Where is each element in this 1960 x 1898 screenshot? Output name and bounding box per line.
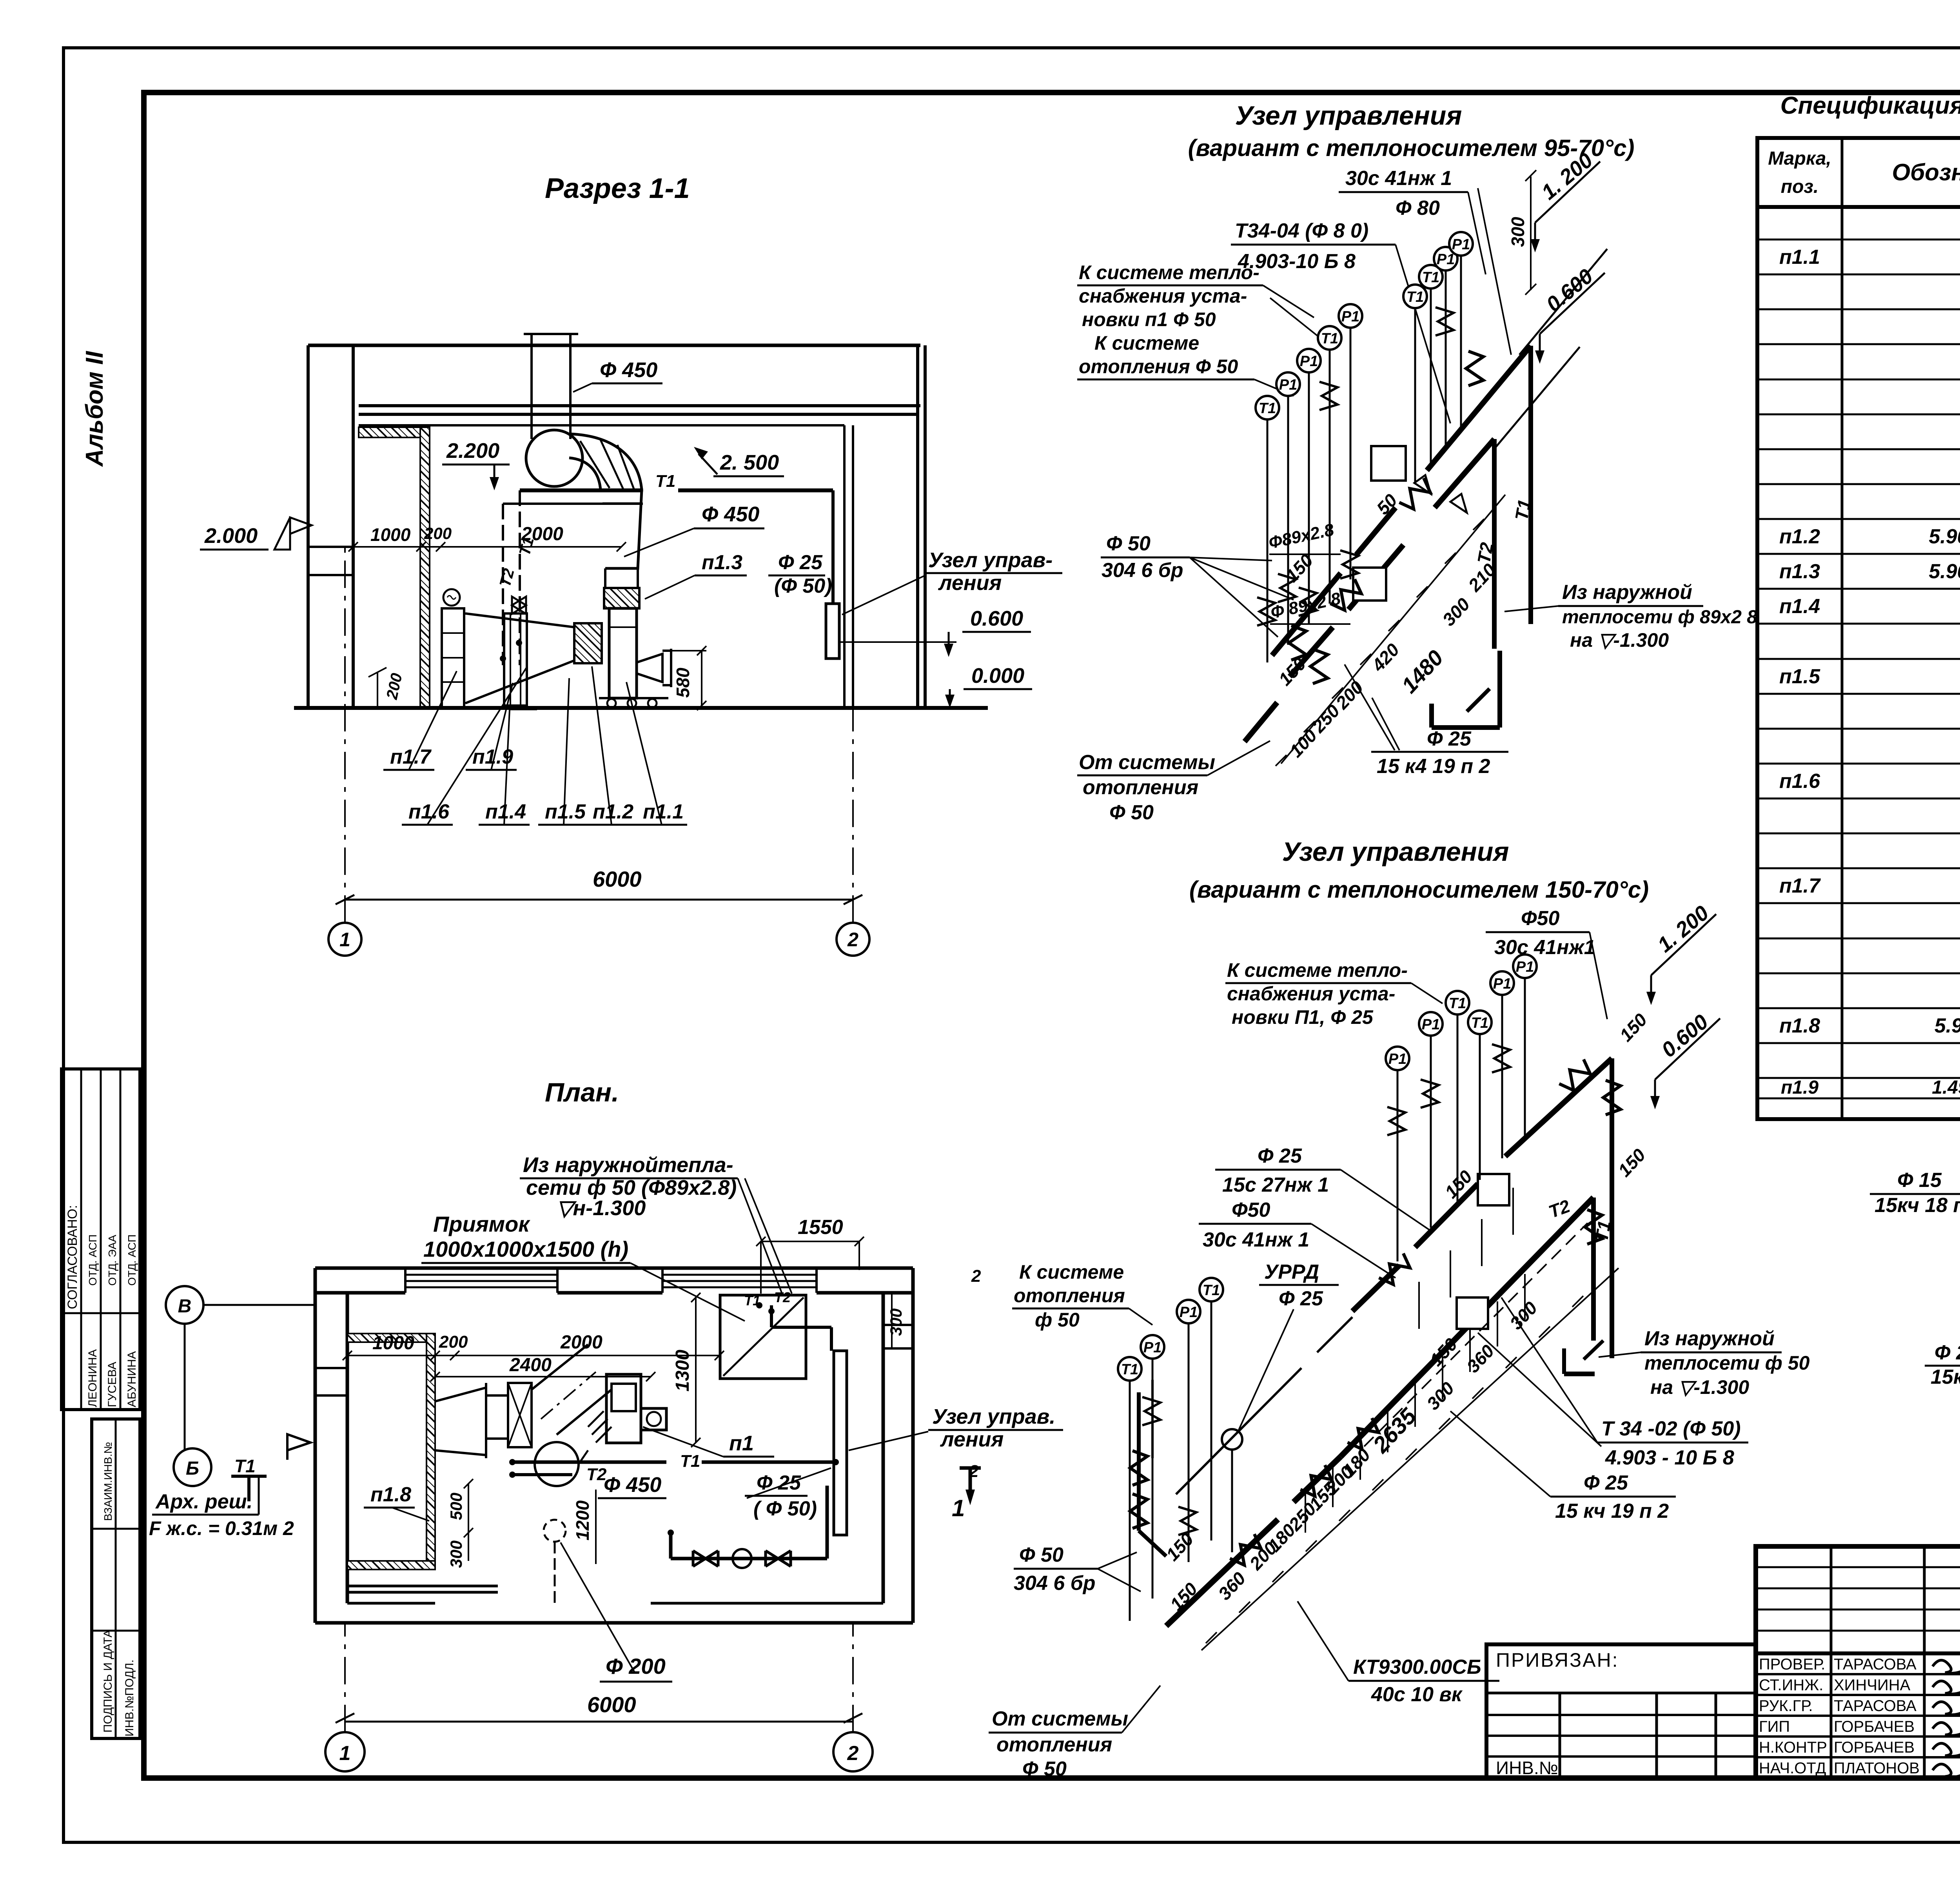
plan grid circle 2 [833, 1623, 873, 1771]
svg-text:п1.1: п1.1 [643, 800, 684, 823]
right column inner [844, 425, 853, 708]
level 0.600 [839, 607, 1031, 657]
svg-text:15кч 18 п 2: 15кч 18 п 2 [1875, 1194, 1960, 1217]
svg-text:ТАРАСОВА: ТАРАСОВА [1834, 1697, 1916, 1715]
label uzel upravlenia section [842, 548, 1062, 615]
svg-text:Узел управ.: Узел управ. [932, 1405, 1055, 1428]
axo2 label URRD [1239, 1261, 1339, 1430]
svg-text:п1.2: п1.2 [1779, 525, 1820, 548]
axo1 dim 300 vertical [1508, 170, 1536, 295]
svg-text:Марка,: Марка, [1768, 148, 1831, 169]
AHU filter box [486, 1383, 532, 1447]
axo1 T1 riser right [1511, 346, 1535, 624]
svg-text:Ф 50: Ф 50 [1022, 1758, 1067, 1780]
flex insert P1.3 [604, 588, 639, 608]
axo1 label k sisteme otopl [1077, 332, 1294, 396]
svg-text:ГОРБАЧЕВ: ГОРБАЧЕВ [1834, 1739, 1915, 1756]
svg-text:К системе: К системе [1019, 1261, 1124, 1283]
riser with gauge Т1 [1419, 265, 1443, 466]
intake chamber hatched walls [347, 1334, 435, 1570]
axo2 valves on runs [1377, 1252, 1414, 1288]
control unit rect [826, 604, 839, 659]
svg-text:2: 2 [847, 1742, 859, 1765]
svg-text:теплосети ф 50: теплосети ф 50 [1644, 1352, 1810, 1374]
label F25 F50 [768, 551, 832, 597]
svg-text:ХИНЧИНА: ХИНЧИНА [1834, 1677, 1911, 1694]
axo2 left assembly [1130, 1380, 1166, 1556]
svg-text:снабжения уста-: снабжения уста- [1227, 983, 1395, 1005]
riser with gauge Р1 [1297, 349, 1321, 624]
svg-text:Р1: Р1 [1388, 1051, 1406, 1067]
riser with gauge Т1 [1403, 285, 1427, 484]
svg-text:300: 300 [887, 1308, 905, 1336]
svg-text:580: 580 [673, 668, 693, 698]
axo1 label T34-04 [1231, 220, 1450, 423]
svg-text:1200: 1200 [572, 1500, 593, 1541]
riser with gauge Т1 [1200, 1278, 1223, 1541]
svg-text:30с 41нж1: 30с 41нж1 [1494, 936, 1595, 959]
svg-text:РУК.ГР.: РУК.ГР. [1759, 1697, 1813, 1715]
svg-text:Р1: Р1 [1300, 353, 1318, 370]
svg-text:Узел управления: Узел управления [1282, 837, 1509, 867]
axo1 flow arrows [1414, 475, 1431, 494]
level mark 2.000 left [200, 517, 312, 550]
svg-text:(вариант с теплоносителем 95-7: (вариант с теплоносителем 95-70°с) [1188, 135, 1635, 161]
svg-text:ВЗАИМ.ИНВ.№: ВЗАИМ.ИНВ.№ [102, 1442, 114, 1521]
dim line 1000/200/2000 [348, 524, 626, 552]
grid line 2 [837, 425, 869, 956]
svg-text:2: 2 [969, 1462, 979, 1481]
svg-text:0.000: 0.000 [971, 664, 1024, 688]
svg-text:1000х1000х1500 (h): 1000х1000х1500 (h) [423, 1237, 628, 1261]
dim 1550 [756, 1216, 864, 1294]
axo1 label F25 15kch [1345, 664, 1508, 778]
svg-text:Р1: Р1 [1452, 236, 1470, 253]
axo2 label ot sistemy [989, 1686, 1160, 1780]
svg-text:300: 300 [1508, 217, 1528, 247]
svg-text:новки П1, Ф 25: новки П1, Ф 25 [1232, 1006, 1374, 1028]
svg-text:СТ.ИНЖ.: СТ.ИНЖ. [1759, 1677, 1823, 1694]
svg-text:40с 10 вк: 40с 10 вк [1371, 1683, 1463, 1706]
label P1 [643, 1427, 774, 1457]
svg-text:Обозначение: Обозначение [1892, 159, 1960, 185]
svg-text:п1.8: п1.8 [1779, 1014, 1820, 1037]
axo2 label F50 30s41 [1199, 1199, 1396, 1278]
specification table header text [1768, 148, 1960, 197]
axo1 T2 riser right [1474, 439, 1497, 649]
svg-text:Из наружной: Из наружной [1562, 581, 1692, 604]
svg-text:2.000: 2.000 [204, 524, 258, 548]
svg-text:(вариант с теплоносителем 150-: (вариант с теплоносителем 150-70°с) [1189, 876, 1649, 903]
svg-text:Ф 25: Ф 25 [757, 1472, 801, 1494]
valve motor [443, 589, 460, 606]
svg-text:Арх. реш.: Арх. реш. [155, 1490, 252, 1513]
axo1 elevation 0.600 [1535, 264, 1605, 364]
svg-text:Альбом II: Альбом II [81, 350, 108, 467]
axo2 URRD circle [1176, 1317, 1352, 1552]
AHU plan: intake cone [435, 1383, 486, 1458]
svg-text:15кч 19п2: 15кч 19п2 [1931, 1366, 1960, 1388]
svg-text:ОТД. АСП: ОТД. АСП [87, 1234, 99, 1286]
svg-text:5.904-38: 5.904-38 [1929, 560, 1960, 583]
svg-text:15с 27нж 1: 15с 27нж 1 [1222, 1174, 1329, 1196]
svg-text:2: 2 [847, 929, 858, 951]
unit base with rollers [599, 698, 668, 708]
section mark 1 top [952, 1468, 981, 1521]
svg-text:ГИП: ГИП [1759, 1718, 1790, 1735]
pit priyamok [720, 1295, 806, 1379]
svg-text:п1.6: п1.6 [1779, 770, 1820, 793]
svg-text:30с 41нж 1: 30с 41нж 1 [1345, 167, 1452, 190]
axo2 stubs between runs [1419, 1188, 1513, 1329]
control unit riser plan [744, 1289, 847, 1535]
svg-text:1300: 1300 [672, 1350, 693, 1392]
svg-text:Т1: Т1 [1471, 1015, 1488, 1031]
svg-text:1000: 1000 [372, 1333, 414, 1354]
svg-text:1000: 1000 [370, 524, 411, 545]
insulation strip on wall top [359, 427, 423, 437]
svg-text:на ▽-1.300: на ▽-1.300 [1570, 629, 1669, 651]
riser with gauge Р1 [1141, 1335, 1164, 1599]
svg-text:АБУНИНА: АБУНИНА [125, 1351, 138, 1407]
svg-text:п1.8: п1.8 [370, 1483, 411, 1506]
specification table rows text [1779, 211, 1960, 1119]
dim 6000 plan [336, 1692, 862, 1723]
plan left wall [315, 1268, 347, 1623]
svg-text:Ф 450: Ф 450 [604, 1473, 661, 1497]
axo1 label F50 304 [1101, 532, 1294, 637]
svg-text:Р1: Р1 [1341, 308, 1359, 325]
dim 1300 [672, 1293, 701, 1447]
svg-text:200: 200 [439, 1332, 468, 1352]
svg-text:ГУСЕВА: ГУСЕВА [106, 1362, 119, 1407]
svg-text:отопления: отопления [1014, 1285, 1125, 1306]
svg-text:п1.1: п1.1 [1779, 246, 1820, 269]
svg-text:6000: 6000 [593, 867, 642, 891]
axo2 label F50 30s41 under title [1486, 907, 1607, 1019]
label F15 top-left [1870, 1169, 1960, 1217]
pipe T1 horizontal [520, 472, 833, 491]
fan elbow [526, 430, 642, 490]
svg-text:сети ф 50 (Ф89х2.8): сети ф 50 (Ф89х2.8) [526, 1176, 737, 1199]
axo2 label F25 15kch [1450, 1411, 1676, 1522]
svg-text:2: 2 [971, 1267, 981, 1286]
label F25 plan [745, 1468, 831, 1520]
svg-text:ПЛАТОНОВ: ПЛАТОНОВ [1834, 1760, 1920, 1777]
riser with gauge Р1 [1276, 372, 1300, 645]
axo1 elevation 1.200 [1530, 149, 1600, 252]
window lines top [405, 1268, 817, 1293]
dim 1200 [572, 1490, 596, 1564]
svg-text:Ф 50: Ф 50 [1106, 532, 1151, 555]
ceiling top line [308, 344, 920, 347]
axo1 T2 diagonal [1245, 439, 1494, 742]
svg-text:ГОРБАЧЕВ: ГОРБАЧЕВ [1834, 1718, 1915, 1735]
heater KSK P1.4 [504, 613, 527, 708]
svg-text:▽н-1.300: ▽н-1.300 [557, 1196, 646, 1220]
svg-text:п1: п1 [729, 1432, 754, 1455]
svg-text:Р1: Р1 [1279, 377, 1297, 393]
svg-text:300: 300 [447, 1541, 465, 1568]
svg-text:Р1: Р1 [1143, 1339, 1161, 1356]
dim 6000 section [336, 867, 862, 904]
svg-text:0.600: 0.600 [970, 607, 1023, 630]
svg-text:2.200: 2.200 [446, 439, 499, 463]
leader labels P1.6 P1.4 P1.5 P1.2 P1.1 [402, 666, 687, 825]
svg-text:ления: ления [938, 571, 1002, 595]
svg-text:5.904-4: 5.904-4 [1935, 1014, 1960, 1037]
dim 300 right [887, 1294, 905, 1348]
svg-text:4.903 - 10 Б 8: 4.903 - 10 Б 8 [1605, 1446, 1734, 1469]
svg-text:Р1: Р1 [1493, 976, 1511, 992]
svg-text:Т2: Т2 [774, 1289, 791, 1305]
flex hatch plan [588, 1411, 612, 1443]
svg-text:Т1: Т1 [680, 1452, 700, 1471]
svg-text:Ф 15: Ф 15 [1897, 1169, 1942, 1192]
svg-text:ления: ления [940, 1428, 1004, 1451]
svg-text:п1.3: п1.3 [1779, 560, 1820, 583]
svg-text:Т1: Т1 [1321, 330, 1338, 347]
svg-text:F ж.с. = 0.31м 2: F ж.с. = 0.31м 2 [149, 1517, 294, 1539]
svg-text:теплосети ф 89х2 8: теплосети ф 89х2 8 [1562, 607, 1757, 628]
svg-text:1550: 1550 [798, 1216, 843, 1239]
privyazan box [1486, 1644, 1756, 1778]
svg-text:Ф 25: Ф 25 [778, 551, 823, 574]
svg-text:План.: План. [545, 1078, 619, 1107]
axo2 label k sisteme teplo [1225, 959, 1443, 1028]
axo1 dim texts [1274, 490, 1500, 761]
plan bottom wall [315, 1603, 913, 1623]
svg-text:Ф50: Ф50 [1232, 1199, 1270, 1221]
svg-text:1: 1 [952, 1495, 965, 1521]
pipe T2 plan stub [509, 1465, 607, 1484]
svg-text:Ф 25: Ф 25 [1258, 1145, 1302, 1167]
svg-text:5.904-38: 5.904-38 [1929, 525, 1960, 548]
axo1 dim line [1276, 495, 1505, 766]
svg-text:ОТД. ЭАА: ОТД. ЭАА [106, 1235, 118, 1286]
lower pipe with valves [668, 1486, 827, 1568]
svg-text:ЛЕОНИНА: ЛЕОНИНА [86, 1349, 99, 1407]
axo2 label T34-02 [1478, 1297, 1748, 1469]
axo1 label iz naruzhnoy [1504, 581, 1757, 651]
svg-text:От системы: От системы [1079, 751, 1215, 774]
svg-text:Узел управ-: Узел управ- [928, 548, 1053, 572]
svg-text:К системе тепло-: К системе тепло- [1227, 959, 1408, 981]
svg-text:Р1: Р1 [1180, 1304, 1198, 1321]
svg-text:15 к4 19 п 2: 15 к4 19 п 2 [1377, 755, 1490, 778]
svg-text:п1.9: п1.9 [1781, 1077, 1818, 1098]
svg-text:СОГЛАСОВАНО:: СОГЛАСОВАНО: [65, 1205, 80, 1309]
T1 flag mark plan [231, 1456, 267, 1501]
svg-text:отопления Ф 50: отопления Ф 50 [1079, 356, 1238, 377]
axo1 squares on runs [1371, 446, 1406, 481]
flag mark left plan [287, 1434, 310, 1460]
svg-text:Ф 25 (Ф50): Ф 25 (Ф50) [1935, 1341, 1960, 1364]
svg-text:Ф 25: Ф 25 [1584, 1472, 1628, 1494]
label P1.3 [645, 551, 747, 599]
riser with gauge Т1 [1446, 991, 1469, 1201]
svg-text:Ф 80: Ф 80 [1396, 197, 1440, 220]
label F450 plan [598, 1473, 666, 1498]
flexible insert P1.2 [574, 623, 602, 663]
riser with gauge Р1 [1449, 232, 1473, 431]
label uzel plan [849, 1405, 1063, 1451]
ceiling slab lines [359, 406, 920, 425]
svg-text:Ф50: Ф50 [1521, 907, 1560, 930]
axo2 elevation 0.600 [1650, 1010, 1720, 1109]
axo2 label F50 304 [1014, 1544, 1141, 1595]
svg-text:отопления: отопления [996, 1733, 1112, 1756]
svg-text:Н.КОНТР: Н.КОНТР [1759, 1739, 1827, 1756]
axo2 T1 right vertical [1591, 1058, 1615, 1358]
riser with gauge Р1 [1386, 1047, 1409, 1261]
plan outer walls top band [315, 1268, 913, 1293]
title block frame [1756, 1546, 1960, 1778]
svg-text:15 кч 19 п 2: 15 кч 19 п 2 [1555, 1500, 1669, 1522]
label F200 [561, 1542, 672, 1682]
svg-text:п1.2: п1.2 [593, 800, 633, 823]
label F450 top [573, 358, 662, 392]
dims 1000 200 2000 plan [343, 1332, 724, 1381]
svg-text:отопления: отопления [1083, 776, 1198, 799]
svg-text:1: 1 [339, 1742, 351, 1765]
svg-text:Т1: Т1 [1203, 1282, 1220, 1299]
svg-text:500: 500 [447, 1493, 465, 1520]
axo1 bottom hook [1432, 651, 1500, 728]
svg-text:п1.3: п1.3 [702, 551, 742, 574]
axo2 T1 upper run [1352, 1058, 1612, 1311]
axo2 elevation 1.200 [1646, 901, 1716, 1005]
svg-text:Т1: Т1 [234, 1456, 256, 1476]
svg-text:УРРД: УРРД [1264, 1261, 1319, 1283]
svg-text:Т1: Т1 [1422, 269, 1439, 286]
vertical duct F450 [524, 334, 578, 439]
discharge taper [601, 490, 642, 588]
label F450 mid [624, 503, 764, 557]
level mark 2.200 [442, 439, 510, 490]
axo1 extra valves cluster [1289, 626, 1306, 660]
pipe T2 riser dashed [496, 504, 643, 665]
dim 200 left [368, 668, 406, 708]
svg-text:Р1: Р1 [1516, 959, 1534, 975]
chamber shelf line [347, 1586, 498, 1592]
left approval table [62, 1069, 140, 1410]
axo2 valves right verticals [1557, 1058, 1594, 1094]
motor P1.1 [637, 649, 671, 687]
grid circle V [166, 1286, 315, 1450]
svg-text:6000: 6000 [587, 1692, 636, 1717]
svg-text:К системе тепло-: К системе тепло- [1079, 261, 1259, 283]
fan section P1.1 [609, 608, 637, 698]
label P1.8 [364, 1483, 429, 1521]
level mark 2.500 [694, 447, 784, 476]
svg-text:Ф 25: Ф 25 [1279, 1287, 1323, 1310]
axo1 valves on runs [1328, 577, 1365, 614]
svg-text:Т1: Т1 [655, 472, 675, 491]
svg-text:Ф 50: Ф 50 [1019, 1544, 1063, 1566]
svg-text:КТ9300.00СБ: КТ9300.00СБ [1353, 1656, 1481, 1678]
svg-text:ПРИВЯЗАН:: ПРИВЯЗАН: [1496, 1649, 1619, 1671]
riser with gauge Р1 [1513, 954, 1537, 1137]
svg-text:2000: 2000 [521, 524, 563, 544]
pipe connection dots [516, 640, 522, 646]
motor box plan [606, 1374, 666, 1443]
riser with gauge Р1 [1419, 1012, 1443, 1228]
svg-text:Ф 50: Ф 50 [1109, 801, 1154, 824]
svg-text:Разрез 1-1: Разрез 1-1 [545, 173, 690, 204]
svg-text:Р1: Р1 [1422, 1016, 1440, 1033]
svg-text:Из наружнойтепла-: Из наружнойтепла- [523, 1153, 733, 1177]
svg-text:1.494-25: 1.494-25 [1932, 1077, 1960, 1098]
svg-text:Из наружной: Из наружной [1644, 1327, 1775, 1350]
svg-text:Приямок: Приямок [433, 1212, 530, 1236]
svg-text:п1.5: п1.5 [1779, 665, 1820, 688]
level 0.000 [945, 664, 1032, 708]
riser with gauge Р1 [1177, 1300, 1200, 1562]
axo1 label 30s41nzh1 F80 [1339, 167, 1511, 355]
axo2 label iz naruzhnoy [1599, 1327, 1810, 1398]
svg-text:п1.7: п1.7 [1779, 875, 1821, 897]
intake cone [465, 613, 574, 703]
axo2 bottom hook [1564, 1341, 1603, 1374]
axo1 slope extension lines [1494, 249, 1607, 449]
fan scroll plan [535, 1442, 588, 1486]
pipe to control unit riser [831, 490, 835, 604]
axo1 F89x2.8 labels [1267, 520, 1350, 624]
svg-text:30с 41нж 1: 30с 41нж 1 [1203, 1228, 1309, 1251]
riser with gauge Р1 [1490, 971, 1514, 1158]
plan right wall [883, 1268, 913, 1623]
svg-text:ТАРАСОВА: ТАРАСОВА [1834, 1656, 1916, 1673]
svg-text:200: 200 [424, 524, 452, 543]
axo2 dim line [1201, 1268, 1619, 1650]
riser with gauge Т1 [1256, 396, 1279, 662]
label from heat network plan [520, 1153, 792, 1294]
svg-text:новки п1 Ф 50: новки п1 Ф 50 [1082, 308, 1216, 330]
svg-text:Ф 450: Ф 450 [702, 503, 759, 526]
svg-text:Т1: Т1 [744, 1292, 760, 1308]
svg-text:ОТД. АСП: ОТД. АСП [126, 1234, 138, 1286]
floor line [294, 706, 988, 710]
AHU diagonal duct [532, 1345, 612, 1435]
label F25(F50) left [1925, 1341, 1960, 1388]
axo1 label ot sistemy [1077, 741, 1270, 824]
F200 dashed circle [544, 1520, 566, 1603]
svg-text:поз.: поз. [1781, 176, 1818, 197]
svg-text:Т1: Т1 [1511, 498, 1535, 522]
svg-text:В: В [178, 1296, 192, 1317]
svg-text:Р1: Р1 [1437, 251, 1455, 268]
svg-text:НАЧ.ОТД: НАЧ.ОТД [1759, 1760, 1826, 1777]
svg-text:ИНВ.№: ИНВ.№ [1496, 1758, 1558, 1778]
svg-text:Узел управления: Узел управления [1235, 101, 1462, 131]
svg-text:ф 50: ф 50 [1035, 1309, 1080, 1331]
svg-text:304 6 бр: 304 6 бр [1102, 559, 1183, 582]
svg-text:ПОДПИСЬ И ДАТА: ПОДПИСЬ И ДАТА [102, 1629, 114, 1733]
title block signature rows [1759, 1656, 1960, 1777]
svg-text:п1.4: п1.4 [1779, 595, 1820, 618]
axo1 label k sisteme teplosnab [1077, 261, 1329, 345]
riser with gauge Р1 [1434, 247, 1457, 449]
svg-text:304 6 бр: 304 6 бр [1014, 1572, 1096, 1595]
svg-text:К системе: К системе [1094, 332, 1199, 354]
svg-text:снабжения уста-: снабжения уста- [1079, 285, 1247, 307]
svg-text:Т1: Т1 [1406, 289, 1424, 305]
axo2 label KT9300 [1298, 1601, 1499, 1706]
svg-text:2400: 2400 [509, 1355, 552, 1375]
dim 580 [666, 646, 706, 710]
riser with gauge Т1 [1318, 326, 1341, 604]
